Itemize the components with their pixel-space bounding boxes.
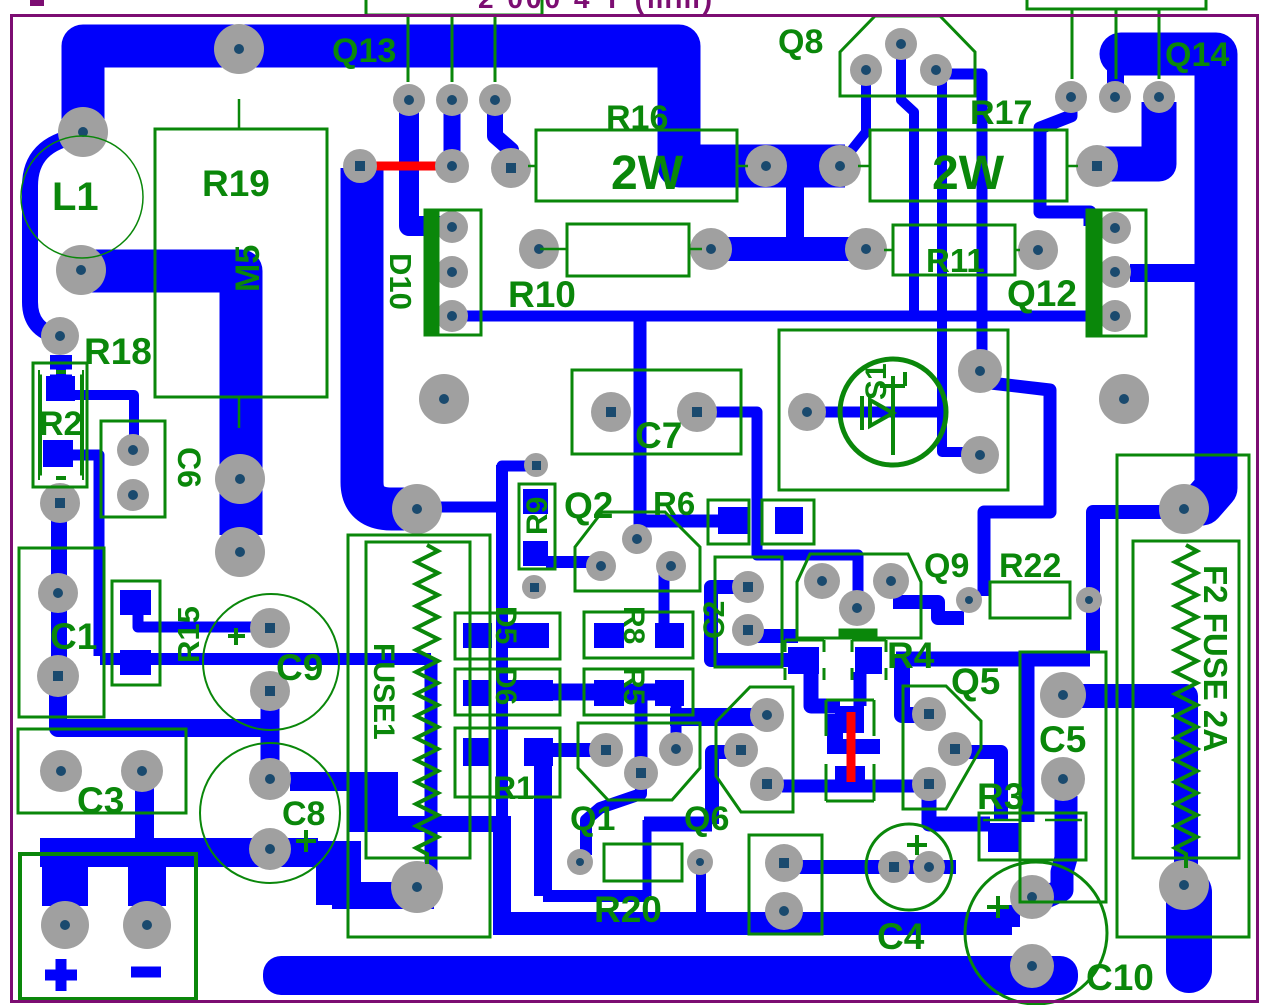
capacitor C3 outline xyxy=(18,729,186,813)
pad Q2 top xyxy=(622,524,652,554)
svg-text:2 000 4 Y (mm): 2 000 4 Y (mm) xyxy=(478,0,715,14)
svg-text:R15: R15 xyxy=(171,606,206,663)
wire R6 left square trace to Q2 vertical xyxy=(646,515,722,528)
pad D10 top xyxy=(436,211,468,243)
svg-text:R3: R3 xyxy=(977,776,1024,817)
wire Q1 bottom pad to R20 left pad xyxy=(586,782,641,855)
pad Q13 row1 c xyxy=(479,84,511,116)
wire Q9 right pad to pad 969,600 xyxy=(893,602,964,618)
pad Q6 top xyxy=(750,698,784,732)
capacitor C1 outline xyxy=(19,548,104,717)
wire SMD row2 rects and trace xyxy=(463,680,490,706)
wire R3 left square xyxy=(988,823,1020,852)
wire terminal - pad feed xyxy=(128,862,166,906)
svg-text:L1: L1 xyxy=(52,175,99,219)
svg-text:R16: R16 xyxy=(606,99,668,137)
pad C7 right xyxy=(677,392,717,432)
transistor Q1 outline xyxy=(578,723,700,800)
wire vertical to Q5 top pad xyxy=(902,655,928,715)
svg-text:R22: R22 xyxy=(999,547,1061,585)
wire C5-left vertical down from y659 xyxy=(1020,662,1035,822)
wire C5 bottom pad strip down to C10 top pad xyxy=(1046,796,1066,897)
capacitor C2 outline xyxy=(715,557,782,667)
fuse F1 zigzag xyxy=(416,545,438,864)
pad C4 left xyxy=(878,851,910,883)
pad via small lower xyxy=(522,575,546,599)
wire vertical x647 through R20 box xyxy=(643,820,652,896)
svg-text:R17: R17 xyxy=(970,94,1032,132)
wire Q13 pad1 to D10 top pad xyxy=(409,96,450,226)
pad top band xyxy=(214,24,264,74)
svg-text:Q1: Q1 xyxy=(570,800,615,838)
pad F2 fuse top xyxy=(1159,484,1209,534)
svg-text:R1: R1 xyxy=(493,770,534,806)
svg-text:C2: C2 xyxy=(698,601,731,639)
wire Q14 pad3 to pad 1097,166 xyxy=(1103,102,1159,164)
transistor Q12 outline xyxy=(1087,210,1146,336)
resistor R16 outline xyxy=(536,130,737,201)
pad L1 bottom xyxy=(56,245,106,295)
pad Q13 row1 b xyxy=(436,84,468,116)
capacitor C10 circle xyxy=(965,862,1107,1004)
C9 plus mark xyxy=(228,628,245,645)
pad C1 upper xyxy=(38,573,78,613)
wire small pad 536,465 hook to fuse top pad xyxy=(440,466,532,507)
pad C9 top xyxy=(250,608,290,648)
wire L from central to Q5 area band y739-754 xyxy=(827,714,843,746)
svg-text:Q13: Q13 xyxy=(332,32,396,70)
wire R2 top square to pad 133,450 xyxy=(72,395,134,446)
svg-text:Q9: Q9 xyxy=(924,547,969,585)
pad Q13 row2 b xyxy=(435,149,469,183)
pad C6 top xyxy=(117,434,149,466)
wire stub R20 right pad down xyxy=(696,870,706,918)
pad Q14 row a xyxy=(1055,81,1087,113)
wire R6 left square xyxy=(718,507,749,534)
wire band y882-909 to fuse pad xyxy=(332,882,434,909)
wire band B y816-832 xyxy=(381,816,508,832)
resistor R22 outline xyxy=(990,582,1070,618)
svg-text:R10: R10 xyxy=(508,274,576,315)
pad Q8 middle xyxy=(885,28,917,60)
wire C1 bottom pad to band y728 xyxy=(58,680,266,728)
pad terminal minus xyxy=(123,901,171,949)
wire R2 bottom square to y659 xyxy=(70,455,99,656)
wire C7 right pad to Q9 middle pad xyxy=(710,412,858,600)
coordinate readout text purple clipped at top xyxy=(30,0,715,14)
wire L1 left strip pad 83,132 to pad 60,336 xyxy=(30,136,78,336)
pad C4 right xyxy=(913,851,945,883)
pad R16 right xyxy=(745,145,787,187)
svg-text:C7: C7 xyxy=(635,415,682,456)
resistor R4 brackets xyxy=(785,640,886,680)
capacitor C4 circle xyxy=(866,824,952,910)
pad Q14 row b xyxy=(1099,81,1131,113)
wire step block xyxy=(349,772,398,832)
fuse F2 outer box xyxy=(1117,455,1249,937)
pad Q5 middle xyxy=(938,732,972,766)
resistor R9 outline xyxy=(519,484,555,569)
svg-text:D5: D5 xyxy=(489,606,522,644)
C4 plus mark xyxy=(907,835,927,855)
thyristor Q7 circle xyxy=(840,359,946,465)
pad R10 right xyxy=(690,228,732,270)
pad R19 strip lower xyxy=(215,527,265,577)
wire R2 top square xyxy=(46,376,75,401)
capacitor C9 circle xyxy=(203,594,339,730)
capacitor C7 outline xyxy=(572,370,741,454)
wire Q8 left pad down xyxy=(850,72,866,152)
wire Q8 mid pad down to long horizontal xyxy=(901,50,914,316)
svg-text:Q14: Q14 xyxy=(1165,36,1229,74)
pad F1 fuse bottom xyxy=(391,861,443,913)
svg-text:C10: C10 xyxy=(1086,957,1154,998)
central square top bracket xyxy=(826,700,874,736)
wire D10 bottom pad long horizontal to Q12 xyxy=(460,311,1100,322)
wire top main V+ band with arms xyxy=(83,46,845,166)
pad C5 bottom xyxy=(1041,757,1085,801)
pad R17 left xyxy=(819,145,861,187)
svg-text:FUSE1: FUSE1 xyxy=(367,643,400,740)
transistor Q2 outline xyxy=(575,512,700,591)
wire R4 left square xyxy=(788,647,819,674)
wire R2 bottom square xyxy=(43,440,73,467)
pad isolated right-center xyxy=(1099,374,1149,424)
wire R5 right rect down to Q1 right pad xyxy=(671,704,682,746)
svg-text:R4: R4 xyxy=(887,635,935,676)
fuse F2 inner box xyxy=(1133,541,1239,858)
inductor L1 circle xyxy=(21,136,143,258)
pad Q8 right xyxy=(920,54,952,86)
thyristor Q7 symbol strokes xyxy=(862,372,905,455)
svg-text:R18: R18 xyxy=(84,331,152,372)
wire bottom mega band xyxy=(263,956,1078,995)
red jumper 1 xyxy=(372,162,446,171)
C10 plus mark xyxy=(987,896,1009,918)
diode D10 outline xyxy=(425,210,481,335)
pad F1 fuse top xyxy=(392,484,442,534)
wire C1 pads chain xyxy=(51,505,67,680)
pad C10 top xyxy=(1010,875,1054,919)
wire Q13 pad3 to pad 511,168 xyxy=(495,98,511,168)
pad F2 fuse bottom xyxy=(1159,860,1209,910)
svg-text:Q5: Q5 xyxy=(951,661,1000,702)
wire pad 980,371 to pad 969,600 via jog xyxy=(982,368,1050,596)
pad Q12 top xyxy=(1099,212,1131,244)
pad C2 top xyxy=(732,571,764,603)
svg-text:M5: M5 xyxy=(229,245,267,292)
pad Q12 middle xyxy=(1099,256,1131,288)
pad Q7 right lower xyxy=(961,436,999,474)
wire R4 right square to central square xyxy=(854,672,867,706)
svg-text:Q2: Q2 xyxy=(564,485,613,526)
pad Q9 right xyxy=(873,563,909,599)
pad K1 box bottom xyxy=(765,892,803,930)
pad R11 right xyxy=(1018,230,1058,270)
wire band A from pad 270,779 xyxy=(290,772,376,791)
diode D5 outline xyxy=(455,613,560,659)
pad C2 bottom xyxy=(732,614,764,646)
wire R4 right square xyxy=(855,647,882,674)
terminal minus mark blue xyxy=(131,967,161,978)
svg-text:Q12: Q12 xyxy=(1007,273,1077,314)
svg-text:C5: C5 xyxy=(1039,719,1086,760)
svg-text:D6: D6 xyxy=(489,667,522,705)
pad C6 bottom xyxy=(117,479,149,511)
wire F2 bottom pad down strip xyxy=(1166,892,1212,970)
svg-text:C3: C3 xyxy=(77,780,124,821)
pad Q5 top xyxy=(912,697,946,731)
wire Q6 mid pad down to band y824 xyxy=(712,752,738,824)
wire Q5 middle pad right and down xyxy=(958,752,1001,820)
svg-text:C8: C8 xyxy=(282,795,325,833)
pad Q6 bottom xyxy=(750,767,784,801)
transistor Q8 outline xyxy=(840,16,975,96)
pad R10 left xyxy=(519,229,559,269)
fuse F1 inner box xyxy=(366,542,470,858)
C8 plus mark xyxy=(296,830,316,852)
fuse F2 zigzag xyxy=(1175,545,1197,868)
wire horizontal y659 right side xyxy=(896,652,1090,667)
wire long vertical x497-508 xyxy=(496,465,508,925)
wire R15 top square xyxy=(120,590,151,615)
wire Q12 top pad band to mega strip xyxy=(1130,264,1204,282)
pad R18 top xyxy=(41,317,79,355)
wire Q14 pad1 hook to Q12 top pad xyxy=(1040,100,1090,226)
pad Q6 middle xyxy=(724,733,758,767)
wire Q13 pad2 down xyxy=(444,96,461,166)
wire band y817-831 x646-718 xyxy=(644,817,712,832)
wire Q14 mega trace from top to F2 pad 1184,509 xyxy=(1121,54,1216,504)
svg-text:Q8: Q8 xyxy=(778,23,823,61)
resistor R19 outline xyxy=(155,129,327,397)
wire stub from R16-R17 band down to R10/R11 band xyxy=(786,180,804,240)
wire F2 top pad to R22 right pad and down xyxy=(1093,512,1168,652)
pad C8 top xyxy=(249,758,291,800)
pad Q5 bottom xyxy=(912,767,946,801)
wire terminal band y838-867 xyxy=(40,838,318,867)
wire central top square xyxy=(835,706,864,733)
wire Q2 right pad down to R8 right rect xyxy=(659,570,670,625)
pad C3 right xyxy=(121,750,163,792)
pad Q9 middle xyxy=(839,590,875,626)
wire Q7 left pad horizontal xyxy=(810,407,940,418)
wire vertical x431 down to fuse bottom pad xyxy=(425,659,438,875)
capacitor C6 outline xyxy=(101,421,165,517)
svg-text:S1: S1 xyxy=(860,363,893,400)
resistor R11 outline xyxy=(893,225,1015,275)
svg-text:R11: R11 xyxy=(926,242,985,279)
resistor R20 outline xyxy=(604,844,682,881)
pad Q7 left xyxy=(788,393,826,431)
wire R5 mid down to Q1 bottom pad xyxy=(635,700,648,770)
transistor Q5 outline xyxy=(903,686,981,809)
connector K1 outline xyxy=(749,835,822,934)
capacitor C8 circle xyxy=(200,743,340,883)
central square bottom bracket xyxy=(826,764,874,801)
heatsink box top right xyxy=(1027,0,1206,9)
red jumper 2 xyxy=(847,712,856,782)
svg-text:D10: D10 xyxy=(383,253,418,310)
svg-text:R2: R2 xyxy=(39,405,82,443)
pad R20 right xyxy=(687,849,713,875)
pad via small upper xyxy=(524,453,548,477)
wire R15 top square to pad 270,628 xyxy=(138,612,255,627)
heatsink box top left xyxy=(366,0,542,15)
transistor Q6 outline xyxy=(716,687,793,812)
resistor R1 outline xyxy=(455,728,560,797)
wire band from L1 bottom pad right and wide strip down to pad 240,552 xyxy=(85,271,241,535)
wire C2 bottom pad to R4 left square xyxy=(752,629,798,643)
pad Q1 bottom xyxy=(624,756,658,790)
svg-text:R19: R19 xyxy=(202,163,270,204)
svg-text:2W: 2W xyxy=(932,147,1005,200)
pad R17 right xyxy=(1076,145,1118,187)
pad Q9 left xyxy=(804,563,840,599)
resistor R5 outline xyxy=(584,669,693,715)
wire terminal elbow down xyxy=(316,841,361,905)
wire Q8 right pad hook to pad 980,371 xyxy=(940,74,982,370)
resistor R10 outline xyxy=(567,224,689,276)
pad Q14 row c xyxy=(1143,81,1175,113)
pad R19 strip upper xyxy=(215,454,265,504)
wire R9 bottom square to Q2 left pad xyxy=(546,556,596,568)
wire big left strip from pad 360,166 to fuse pad 417,509 xyxy=(362,168,416,509)
wire horizontal mid-left y659 xyxy=(100,653,431,665)
pad Q2 right xyxy=(656,551,686,581)
wire band y912-935 xyxy=(493,912,1012,935)
resistor R3 outline xyxy=(979,813,1086,860)
wire R2 pad stub xyxy=(50,355,72,383)
wire R6 right square xyxy=(775,507,803,534)
pad isolated left-center xyxy=(419,374,469,424)
resistor R17 outline xyxy=(870,130,1067,201)
pad terminal plus xyxy=(41,901,89,949)
svg-text:R8: R8 xyxy=(617,606,650,644)
svg-text:C1: C1 xyxy=(50,616,97,657)
wire R15 bottom square xyxy=(120,650,151,675)
pad R22 left xyxy=(956,587,982,613)
svg-text:C6: C6 xyxy=(171,447,207,488)
pad C10 bottom xyxy=(1010,944,1054,988)
pad R11 left xyxy=(845,228,887,270)
pad C7 left xyxy=(591,392,631,432)
resistor R15 outline xyxy=(112,581,160,685)
wire Q14 pad2 stub up xyxy=(1107,62,1124,92)
capacitor C5 outline xyxy=(1020,652,1106,902)
svg-text:2W: 2W xyxy=(611,147,684,200)
wire terminal + pad feed xyxy=(42,850,88,906)
resistor R6 outline boxes xyxy=(708,500,749,544)
wire Q1 right pad band to Q6 top pad xyxy=(670,708,763,726)
wire thin vertical pad 980,371 up to horizontal y316 xyxy=(977,316,988,368)
wire central bottom square xyxy=(835,766,865,791)
wire SMD row1 rects xyxy=(463,623,492,648)
pad K1 box top xyxy=(765,844,803,882)
pad C3 left xyxy=(40,750,82,792)
svg-text:R6: R6 xyxy=(653,485,695,522)
transistor Q9 outline xyxy=(797,554,921,638)
wire vertical from horizontal down to Q2 top pad xyxy=(634,320,647,536)
wire R9 squares xyxy=(523,489,548,514)
wire R4 left square feed from C2 xyxy=(711,587,792,660)
pad Q12 bottom xyxy=(1099,300,1131,332)
svg-text:R5: R5 xyxy=(617,667,650,705)
wire stub up to pad 270,691 and down to pad 270,779 xyxy=(261,691,280,779)
pad C9 bottom xyxy=(250,671,290,711)
wire band y917-935 from x636 to C10 top pad xyxy=(636,917,1010,935)
pad R16 left xyxy=(491,148,531,188)
pad Q2 left xyxy=(586,551,616,581)
pad D10 bottom xyxy=(436,300,468,332)
wire C5 top pad band to F2 bottom pad xyxy=(1082,696,1186,878)
wire C4 horizontal through pads xyxy=(790,860,956,874)
svg-text:Q6: Q6 xyxy=(684,800,729,838)
pad C5 top xyxy=(1040,672,1086,718)
wire SMD row3 rects and trace to Q1 left pad xyxy=(463,738,490,766)
wire Q8 right pad down to pad 980,455 xyxy=(942,80,975,452)
pad Q8 left xyxy=(850,54,882,86)
resistor R2 outline xyxy=(33,363,87,487)
wire R4 left square to central square xyxy=(811,672,840,706)
terminal plus mark blue xyxy=(45,959,77,991)
thyristor Q7 box xyxy=(779,330,1008,490)
wire vertical x493-511 xyxy=(493,816,511,928)
wire R3 band y817-831 xyxy=(929,790,990,824)
diode D6 outline xyxy=(455,669,560,715)
pad D10 middle xyxy=(436,256,468,288)
svg-text:C9: C9 xyxy=(276,647,323,688)
pad C1 lower xyxy=(37,655,79,697)
wire band y780-792 Q6 bottom to Q5 bottom xyxy=(782,780,924,793)
pad Q13 row2 a xyxy=(343,149,377,183)
pad L1 top xyxy=(58,107,108,157)
resistor R8 outline xyxy=(584,612,693,658)
pad Q7 right upper xyxy=(958,349,1002,393)
wire R10 to R11 band xyxy=(708,237,868,261)
pad Q1 right xyxy=(659,732,693,766)
pad R20 left xyxy=(567,849,593,875)
pad Q13 row1 a xyxy=(393,84,425,116)
fuse F1 outer box xyxy=(348,535,490,937)
svg-text:R20: R20 xyxy=(594,889,662,930)
svg-text:R9: R9 xyxy=(521,497,554,535)
wire band y890-902 xyxy=(543,890,649,902)
pad Q1 left xyxy=(589,733,623,767)
wire vertical x534-552 from row3 right rect down xyxy=(534,762,552,896)
svg-text:F2 FUSE 2A: F2 FUSE 2A xyxy=(1197,565,1234,752)
pad R22 right xyxy=(1076,587,1102,613)
svg-text:C4: C4 xyxy=(877,916,925,957)
terminal block outline xyxy=(20,854,196,999)
wire stub band to pad 1032,897 xyxy=(998,905,1020,927)
pad R2 bottom xyxy=(40,483,80,523)
wire C3 pad stub down xyxy=(135,782,154,840)
pad C8 bottom xyxy=(249,828,291,870)
